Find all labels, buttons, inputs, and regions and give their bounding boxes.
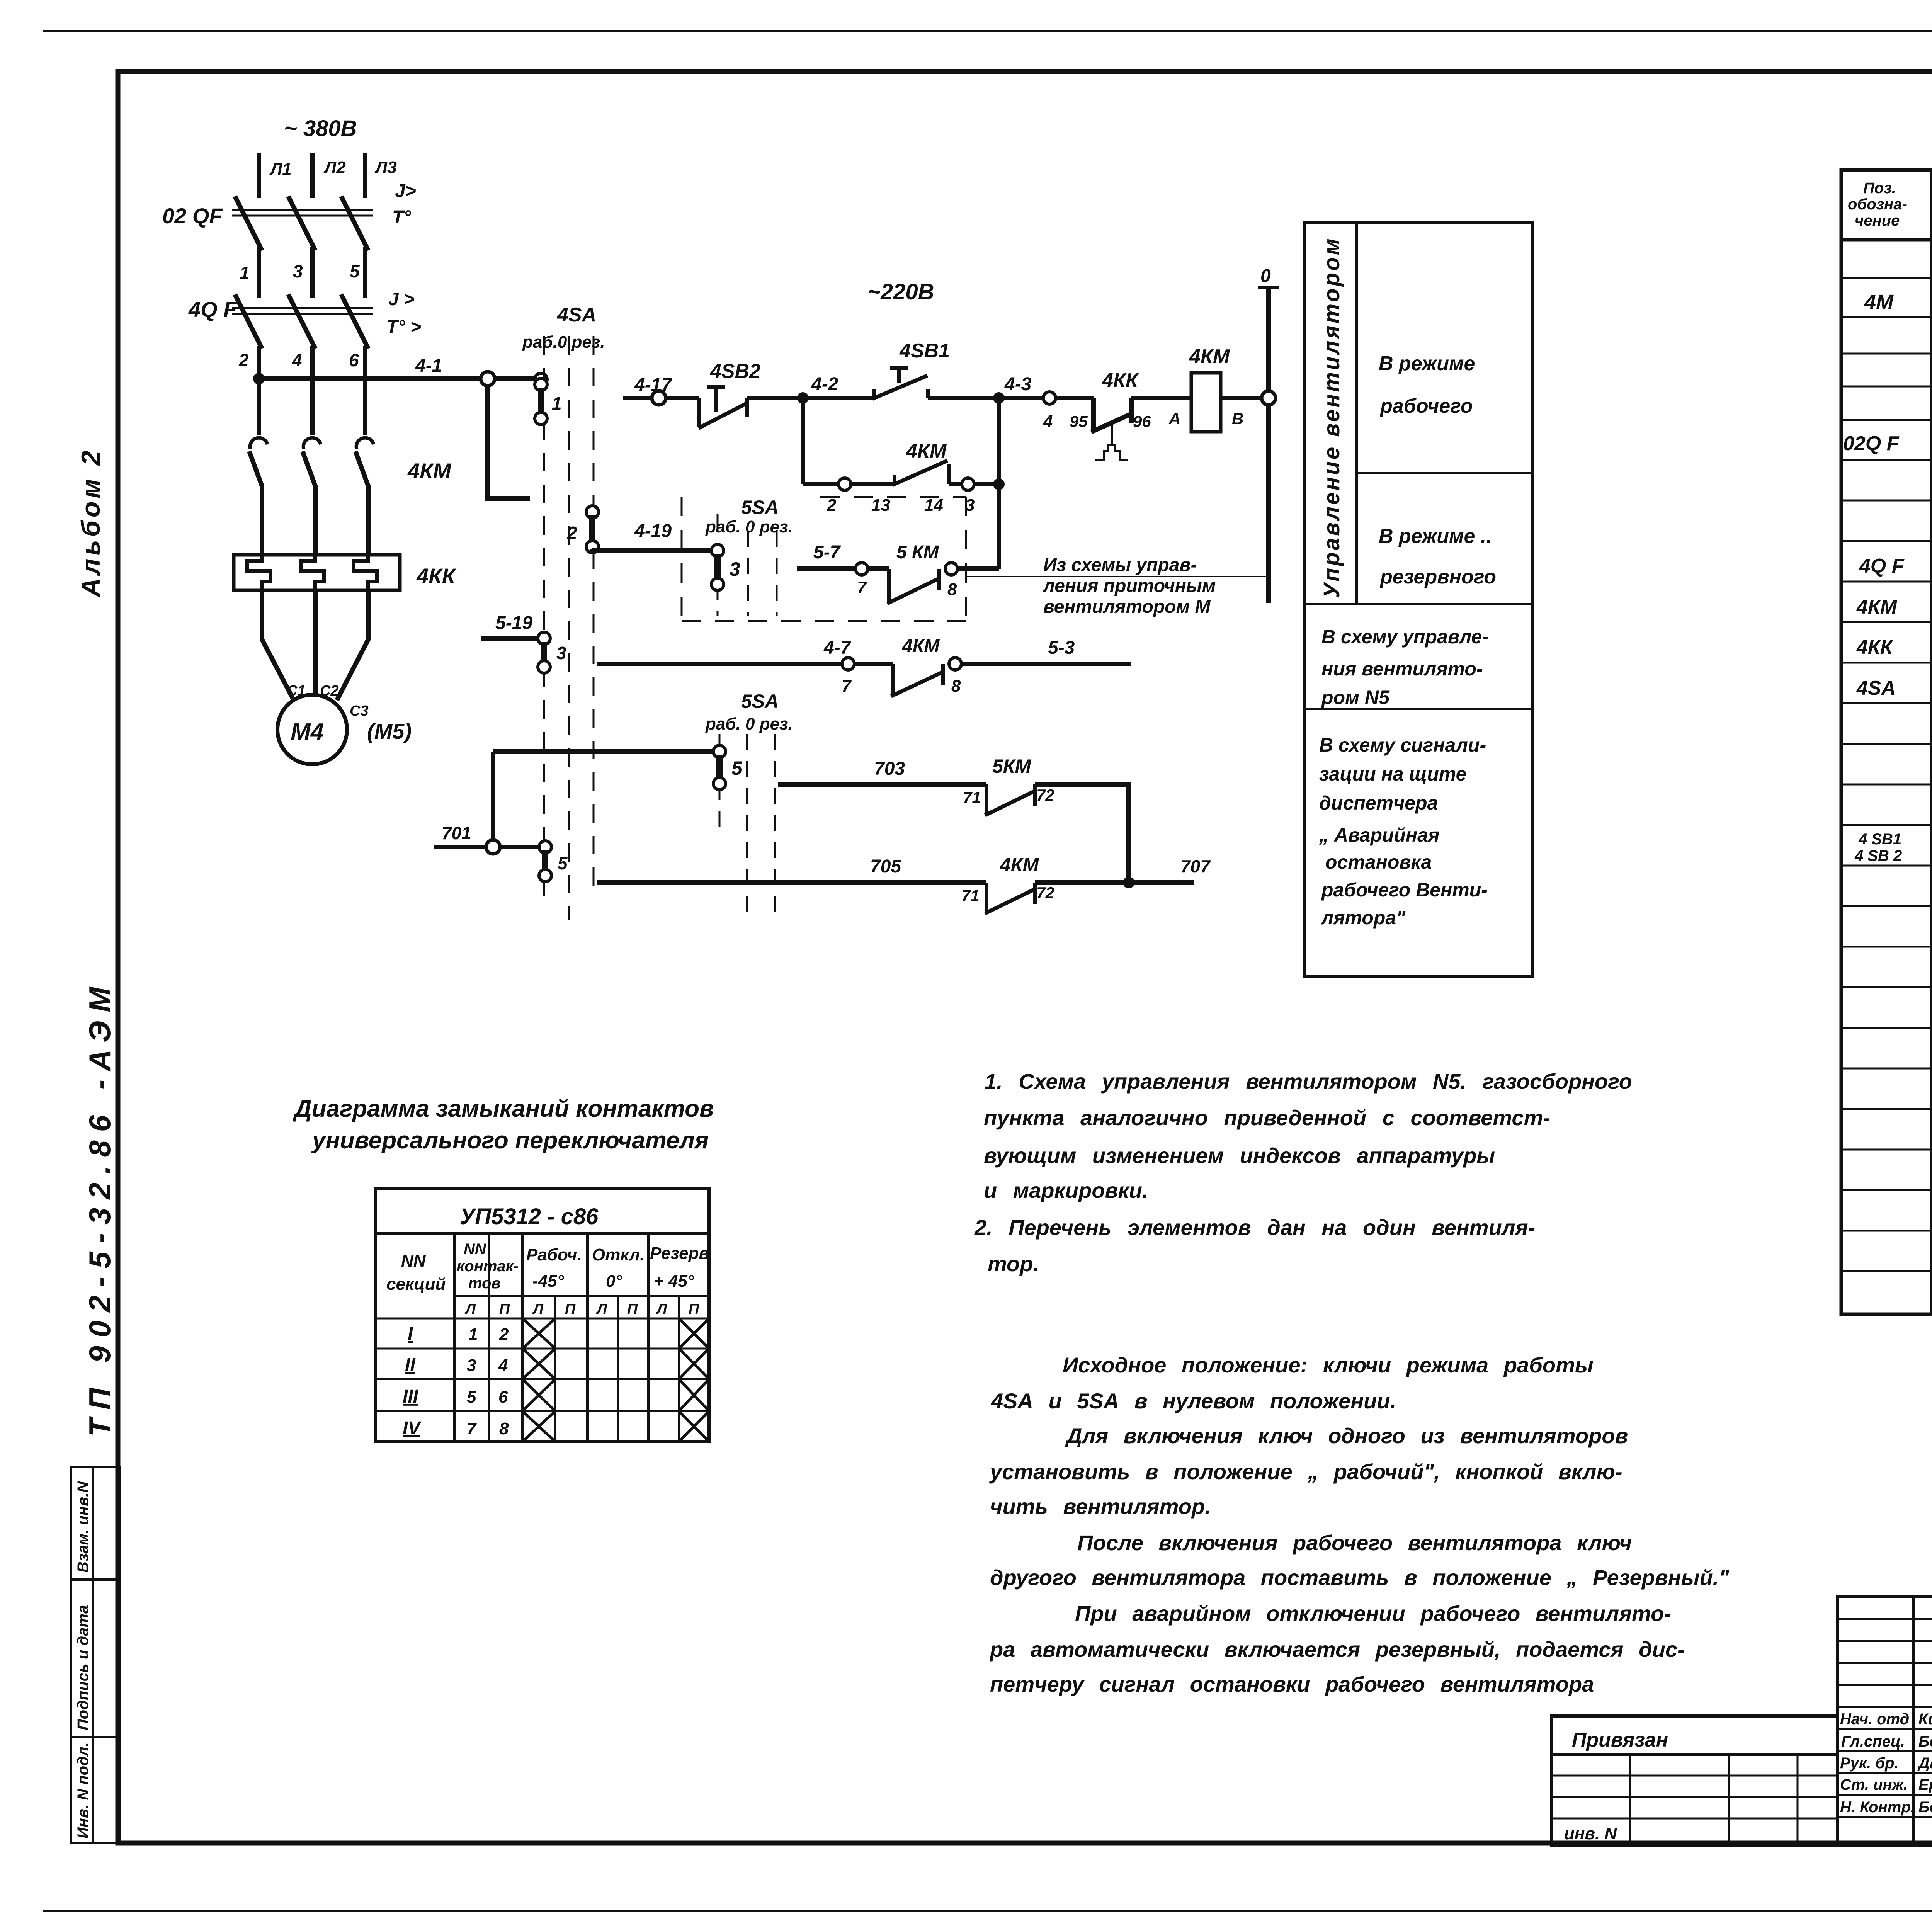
svg-text:4: 4 [1043, 412, 1053, 431]
svg-text:остановка: остановка [1325, 851, 1432, 873]
signature table [1838, 1597, 1932, 1845]
svg-text:4КМ: 4КМ [1189, 345, 1230, 368]
svg-text:универсального переключателя: универсального переключателя [311, 1127, 709, 1154]
svg-text:6: 6 [349, 350, 359, 370]
svg-text:Гл.спец.: Гл.спец. [1841, 1733, 1905, 1750]
svg-text:III: III [403, 1386, 419, 1407]
svg-text:Л: Л [532, 1301, 544, 1317]
svg-text:02Q F: 02Q F [1843, 432, 1900, 455]
svg-text:В режиме ..: В режиме .. [1379, 525, 1492, 548]
svg-text:5: 5 [731, 757, 743, 779]
svg-text:4КК: 4КК [1102, 369, 1139, 392]
svg-text:14: 14 [924, 496, 943, 515]
svg-text:~220В: ~220В [867, 279, 934, 304]
svg-text:4SА: 4SА [1856, 677, 1896, 699]
contactor coil 4КМ [1191, 373, 1221, 432]
svg-text:Л3: Л3 [374, 158, 397, 177]
svg-text:Подпись и дата: Подпись и дата [75, 1605, 92, 1730]
svg-text:4-19: 4-19 [634, 521, 672, 541]
svg-text:4М: 4М [1864, 291, 1894, 314]
svg-text:703: 703 [874, 759, 905, 779]
node pin 8 (5KM) [945, 563, 957, 575]
svg-text:В режиме: В режиме [1379, 352, 1475, 375]
node circle at 1400 [535, 373, 547, 386]
svg-text:тор.: тор. [988, 1252, 1039, 1276]
svg-text:Рук. бр.: Рук. бр. [1840, 1755, 1899, 1772]
node pin 4 [1043, 392, 1056, 404]
svg-text:5: 5 [558, 853, 568, 873]
wire rung1 4-17 [623, 396, 699, 400]
svg-text:Т°: Т° [392, 207, 411, 228]
svg-text:Л1: Л1 [269, 160, 292, 179]
svg-text:С1: С1 [287, 683, 306, 699]
neutral bus 0 [1258, 288, 1279, 603]
5SA contact 5 [713, 745, 743, 790]
svg-text:2: 2 [827, 496, 837, 515]
aux contact 4KM (NO) rung 5-3 [891, 664, 943, 696]
svg-text:ром N5: ром N5 [1321, 687, 1390, 708]
wire 5-7 [797, 566, 889, 571]
svg-text:П: П [627, 1301, 638, 1317]
wire into 5SA contact 5 [493, 749, 714, 754]
svg-text:5 КМ: 5 КМ [896, 542, 939, 563]
wire contact to junction [949, 482, 999, 486]
svg-text:Беленькая: Беленькая [1918, 1733, 1932, 1750]
svg-text:5: 5 [350, 261, 360, 281]
svg-text:3: 3 [730, 558, 740, 580]
wire 701 [434, 845, 540, 849]
svg-text:Альбом 2: Альбом 2 [76, 448, 105, 598]
svg-text:5КМ: 5КМ [992, 755, 1032, 777]
svg-text:4 SВ1: 4 SВ1 [1858, 831, 1901, 848]
node pin 8 (4KM rung) [949, 658, 961, 670]
svg-text:4-3: 4-3 [1004, 374, 1032, 395]
node at neutral [1262, 391, 1276, 405]
destination box Управление вентилятором [1304, 222, 1532, 976]
svg-text:петчеру сигнал остановки: петчеру сигнал остановки рабочего вентил… [990, 1672, 1594, 1696]
svg-text:71: 71 [961, 886, 980, 905]
svg-text:8: 8 [947, 580, 957, 599]
svg-text:контак-: контак- [457, 1258, 519, 1275]
node pin 2 [838, 478, 851, 490]
svg-text:Резерв: Резерв [650, 1244, 709, 1263]
wire 4SB2 to 4-2 [747, 396, 803, 400]
svg-text:4Q F: 4Q F [1859, 555, 1905, 577]
5SA dashed lines (upper group) [718, 514, 777, 616]
svg-text:и маркировки.: и маркировки. [984, 1178, 1148, 1202]
pushbutton 4SB2 (stop) [699, 387, 747, 428]
svg-text:2: 2 [238, 350, 249, 370]
svg-text:рабочего: рабочего [1379, 395, 1473, 417]
svg-text:72: 72 [1036, 786, 1054, 804]
Привязан table [1551, 1716, 1838, 1845]
svg-text:4КМ: 4КМ [1000, 854, 1039, 876]
svg-text:4КМ: 4КМ [407, 459, 452, 483]
svg-text:96: 96 [1133, 412, 1151, 430]
svg-text:При аварийном отключении ра: При аварийном отключении рабочего вентил… [1075, 1601, 1671, 1626]
svg-text:5: 5 [467, 1388, 476, 1406]
svg-text:~ 380В: ~ 380В [284, 116, 357, 141]
svg-text:Т° >: Т° > [386, 317, 421, 337]
aux contact 4KM rung 705 [985, 883, 1035, 913]
thermal contact 4KK (NC) [1091, 398, 1192, 432]
svg-text:Для включения ключ одного: Для включения ключ одного из вентиляторо… [1065, 1423, 1628, 1448]
wire 4-3 to 4KK [999, 396, 1094, 400]
svg-text:тов: тов [468, 1275, 501, 1292]
wire pole1 between breakers [259, 247, 365, 298]
wire 4-19 [592, 549, 712, 552]
svg-text:6: 6 [498, 1388, 508, 1406]
svg-text:4КМ: 4КМ [1856, 596, 1898, 618]
node circle at 1262 [481, 372, 495, 386]
svg-text:NN: NN [464, 1241, 486, 1258]
svg-text:диспетчера: диспетчера [1319, 792, 1438, 814]
wire poles below 4KM [262, 485, 368, 555]
svg-text:резервного: резервного [1379, 566, 1496, 588]
circuit breaker 4QF [232, 294, 373, 349]
svg-text:П: П [565, 1301, 576, 1317]
svg-text:чение: чение [1855, 212, 1900, 229]
svg-text:раб. 0 рез.: раб. 0 рез. [705, 517, 793, 536]
svg-text:П: П [689, 1301, 699, 1317]
wire seal-in rung [803, 482, 895, 486]
node 701 junction [486, 840, 500, 854]
wire bus 4-1 [259, 376, 536, 381]
wire 8 to vertical [957, 566, 999, 571]
svg-text:ТП 902-5-32.86 -АЭМ: ТП 902-5-32.86 -АЭМ [83, 979, 117, 1437]
wire from bus down to 1290 [488, 385, 530, 498]
svg-text:Откл.: Откл. [592, 1245, 645, 1264]
4SA contact 5 [539, 841, 568, 882]
wire rung 705 [597, 880, 986, 885]
svg-text:А: А [1168, 410, 1180, 428]
circuit breaker 02QF [232, 196, 373, 250]
svg-text:707: 707 [1180, 856, 1211, 876]
svg-text:Управление вентилятором: Управление вентилятором [1319, 237, 1344, 599]
svg-text:Л: Л [464, 1301, 476, 1317]
svg-text:Ермаков: Ермаков [1918, 1776, 1932, 1793]
svg-text:J>: J> [395, 181, 416, 201]
svg-text:С2: С2 [320, 683, 339, 699]
svg-text:8: 8 [499, 1419, 509, 1438]
svg-text:4SА: 4SА [557, 304, 596, 326]
svg-text:J >: J > [388, 289, 415, 310]
parts list table grid [1841, 170, 1932, 1314]
svg-text:рабочего Венти-: рабочего Венти- [1321, 879, 1488, 901]
node 4-2 junction [797, 392, 809, 404]
svg-text:4SB2: 4SB2 [710, 360, 760, 383]
svg-text:лятора": лятора" [1321, 907, 1406, 929]
svg-text:2: 2 [499, 1325, 509, 1344]
svg-text:701: 701 [442, 823, 471, 843]
svg-text:72: 72 [1036, 884, 1054, 902]
svg-text:2. Перечень элементов дан н: 2. Перечень элементов дан на один вентил… [974, 1215, 1535, 1240]
svg-text:4-7: 4-7 [823, 638, 852, 658]
svg-text:8: 8 [951, 677, 961, 696]
wire 4SB1 to 4-3 [928, 396, 999, 400]
svg-text:Инв. N подл.: Инв. N подл. [75, 1742, 92, 1838]
wire coil to neutral [1221, 396, 1269, 400]
selector 5SA dashed box [682, 497, 966, 621]
svg-text:5-7: 5-7 [813, 542, 841, 563]
pushbutton 4SB1 (start) [872, 368, 928, 399]
5SA lower dashed lines [719, 734, 775, 923]
svg-text:7: 7 [857, 578, 867, 597]
svg-text:установить в положение „ раб: установить в положение „ рабочий", кнопк… [989, 1459, 1622, 1484]
svg-text:В схему управле-: В схему управле- [1321, 626, 1488, 648]
node 707 junction [1123, 877, 1134, 888]
svg-text:-45°: -45° [532, 1272, 564, 1291]
svg-text:Рабоч.: Рабоч. [526, 1245, 582, 1264]
svg-text:раб. 0 рез.: раб. 0 рез. [705, 714, 793, 733]
svg-text:Н. Контр.: Н. Контр. [1840, 1799, 1915, 1816]
wire vertical 4-3 down [997, 398, 1001, 569]
svg-text:„ Аварийная: „ Аварийная [1319, 824, 1439, 846]
svg-text:0: 0 [1260, 266, 1271, 286]
svg-text:5-3: 5-3 [1048, 638, 1075, 658]
svg-text:4КМ: 4КМ [902, 636, 940, 656]
wire 705 junction to 707 [1035, 880, 1194, 885]
wire to 5-3 right [961, 662, 1131, 666]
svg-text:1. Схема управления вентилят: 1. Схема управления вентилятором N5. газ… [985, 1069, 1632, 1094]
svg-text:другого вентилятора постави: другого вентилятора поставить в положени… [990, 1565, 1730, 1590]
svg-text:вентилятором М: вентилятором М [1043, 597, 1211, 617]
svg-text:П: П [499, 1301, 510, 1317]
4KK manual release icon [1095, 425, 1128, 460]
aux contact 5KM rung 703 [985, 784, 1035, 815]
svg-text:обозна-: обозна- [1848, 196, 1907, 213]
signature rows [1840, 1711, 1932, 1816]
svg-text:После включения рабочего ве: После включения рабочего вентилятора клю… [1077, 1531, 1632, 1555]
4SA contact 3 [538, 632, 566, 673]
svg-text:Беленькая: Беленькая [1918, 1799, 1932, 1816]
svg-text:7: 7 [467, 1419, 477, 1438]
svg-text:1: 1 [240, 263, 250, 283]
svg-text:3: 3 [293, 261, 303, 281]
junction seal-in [993, 478, 1005, 490]
svg-text:4: 4 [292, 350, 302, 370]
phase line L2 [310, 153, 315, 198]
svg-text:4КК: 4КК [416, 564, 457, 588]
node pin 7 (5KM) [855, 563, 868, 575]
notes paragraph 1 [974, 1069, 1632, 1276]
svg-text:3: 3 [556, 643, 566, 663]
svg-text:Исходное положение: ключи р: Исходное положение: ключи режима работы [1063, 1353, 1594, 1377]
margin box Взам.инв.N [71, 1467, 120, 1580]
wire 701 vertical [491, 752, 495, 847]
svg-text:2: 2 [567, 523, 577, 543]
node pin 7 (4KM rung) [842, 658, 854, 670]
svg-text:5-19: 5-19 [495, 613, 532, 633]
4SA contact 1 [535, 378, 562, 425]
svg-text:раб.0 рез.: раб.0 рез. [522, 333, 605, 352]
contactor 4KM main contacts [249, 438, 374, 486]
svg-text:4КМ: 4КМ [906, 440, 947, 463]
svg-text:инв. N: инв. N [1564, 1824, 1617, 1843]
svg-text:Нач. отд: Нач. отд [1840, 1711, 1909, 1728]
wire 4-2 to 4SB1 [803, 396, 874, 400]
wire poles below 4QF [259, 346, 365, 435]
margin box Инв.N подл. [71, 1737, 120, 1843]
svg-text:М4: М4 [291, 719, 324, 745]
svg-text:УП5312 - с86: УП5312 - с86 [460, 1204, 599, 1229]
svg-text:Л: Л [596, 1301, 607, 1317]
svg-text:+ 45°: + 45° [654, 1272, 694, 1291]
svg-text:С3: С3 [350, 703, 369, 719]
svg-text:Л2: Л2 [323, 158, 346, 177]
node pin 3 [962, 478, 974, 490]
svg-text:4КК: 4КК [1856, 636, 1894, 658]
svg-text:5SА: 5SА [741, 690, 779, 712]
svg-text:ра автоматически включается: ра автоматически включается резервный, п… [989, 1637, 1685, 1662]
aux contact 4KM (NO) [893, 461, 949, 485]
svg-text:IV: IV [403, 1418, 422, 1439]
svg-text:1: 1 [552, 393, 562, 413]
annotation line to text [966, 576, 1271, 577]
svg-text:71: 71 [963, 788, 981, 806]
wires to motor [262, 590, 368, 700]
margin box Подпись и дата [71, 1580, 120, 1737]
svg-text:Привязан: Привязан [1572, 1729, 1668, 1751]
subrow Л П labels [464, 1301, 699, 1317]
svg-text:0°: 0° [606, 1272, 622, 1291]
4SA contact 2 [567, 506, 599, 553]
wire rung 703 [778, 782, 986, 787]
svg-text:вующим изменением индексо: вующим изменением индексов аппаратуры [984, 1143, 1495, 1168]
svg-text:Поз.: Поз. [1863, 180, 1896, 197]
svg-text:705: 705 [870, 856, 901, 877]
svg-text:4-2: 4-2 [811, 374, 838, 395]
junction on pole1 [253, 373, 265, 384]
node 4-3 junction [993, 392, 1005, 404]
svg-text:чить вентилятор.: чить вентилятор. [990, 1494, 1211, 1519]
5SA contact 3 [711, 544, 740, 590]
svg-text:Кильметов: Кильметов [1918, 1711, 1932, 1728]
aux contact 5KM (NO) in box [887, 569, 939, 604]
svg-text:Ст. инж.: Ст. инж. [1840, 1776, 1908, 1793]
svg-text:В: В [1232, 410, 1243, 428]
thermal relay 4KK heaters [234, 555, 400, 590]
svg-text:5SА: 5SА [741, 497, 779, 518]
svg-text:7: 7 [842, 677, 852, 696]
node 4-17 [652, 391, 666, 405]
svg-text:секций: секций [386, 1275, 446, 1294]
wire 5-19 [481, 636, 539, 641]
svg-text:I: I [408, 1324, 413, 1344]
svg-text:пункта аналогично приведе: пункта аналогично приведенной с соответс… [984, 1105, 1550, 1130]
svg-text:4 SВ 2: 4 SВ 2 [1854, 847, 1902, 864]
svg-text:4: 4 [498, 1356, 508, 1375]
svg-text:(М5): (М5) [367, 719, 412, 743]
svg-text:ния вентилято-: ния вентилято- [1321, 658, 1483, 680]
phase line L1 [257, 153, 261, 198]
svg-text:4Q F: 4Q F [188, 297, 237, 321]
svg-text:3: 3 [467, 1356, 476, 1375]
svg-text:В схему сигнали-: В схему сигнали- [1319, 734, 1486, 756]
svg-text:ления приточным: ления приточным [1043, 576, 1216, 596]
motor M4 [277, 695, 347, 764]
svg-text:4-1: 4-1 [415, 355, 442, 376]
wire rung 5-3 [597, 662, 893, 666]
contact diagram table [376, 1189, 709, 1442]
notes paragraph 2 [989, 1353, 1730, 1696]
svg-text:1: 1 [468, 1325, 478, 1344]
svg-text:13: 13 [871, 496, 890, 515]
svg-text:Диаграмма замыканий контакто: Диаграмма замыканий контактов [293, 1095, 714, 1122]
svg-text:4SА и 5SА в нулевом пол: 4SА и 5SА в нулевом положении. [991, 1389, 1396, 1413]
svg-text:02 QF: 02 QF [162, 204, 223, 228]
phase line L3 [363, 153, 367, 198]
wire 703 to corner [1035, 784, 1129, 883]
switch 4SA dashed lines [544, 336, 594, 920]
svg-text:II: II [405, 1355, 416, 1375]
svg-text:Из схемы управ-: Из схемы управ- [1043, 555, 1197, 575]
wire seal-in branch vertical [801, 398, 805, 484]
svg-text:4SB1: 4SB1 [899, 340, 950, 362]
svg-text:4-17: 4-17 [634, 375, 672, 395]
svg-text:95: 95 [1070, 412, 1088, 430]
svg-text:зации на щите: зации на щите [1319, 763, 1466, 785]
svg-text:NN: NN [401, 1252, 426, 1270]
svg-text:Л: Л [656, 1301, 667, 1317]
svg-text:Взам. инв.N: Взам. инв.N [75, 1481, 92, 1573]
svg-text:Дворников: Дворников [1917, 1755, 1932, 1772]
